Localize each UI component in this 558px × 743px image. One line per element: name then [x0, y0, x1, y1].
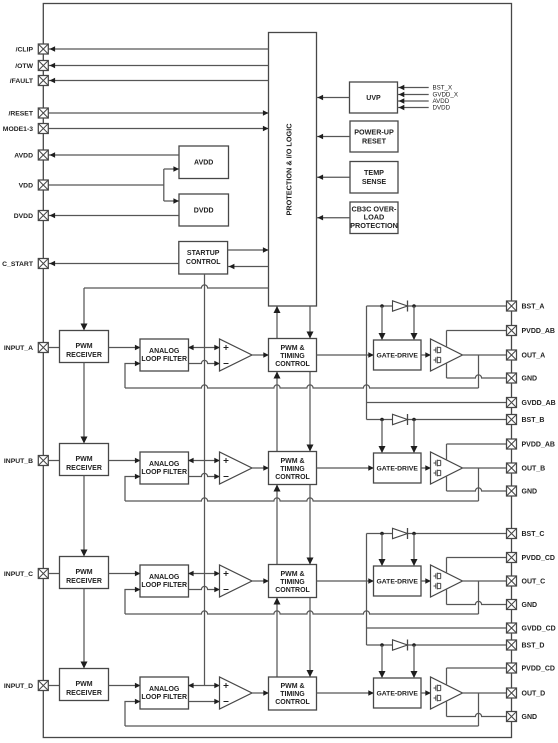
- terminal GND channel B: [507, 486, 517, 496]
- wire UVP input AVDD: [398, 100, 429, 102]
- wire PVDD_AB channel A: [447, 330, 507, 332]
- block GATE-DRIVE D: [374, 678, 422, 708]
- svg-text:AVDD: AVDD: [194, 160, 213, 167]
- wire gate drive D to output stage: [421, 692, 430, 694]
- block PWM RECEIVER C: [60, 557, 109, 589]
- svg-text:PWM: PWM: [75, 569, 92, 576]
- wire PWM timing control C to gate drive: [317, 580, 373, 582]
- wire PWM timing control D to gate drive: [317, 692, 373, 694]
- block UVP: [350, 82, 398, 113]
- svg-text:GATE-DRIVE: GATE-DRIVE: [376, 353, 418, 360]
- wire loop filter C to comparator minus: [189, 586, 219, 589]
- svg-text:STARTUP: STARTUP: [187, 250, 220, 257]
- svg-text:PWM &: PWM &: [280, 571, 304, 578]
- wire AVDD output: [48, 154, 179, 156]
- wire GVDD_CD: [367, 627, 507, 629]
- wire INPUT_A to PWM receiver: [48, 347, 59, 349]
- comparator C: [220, 565, 253, 597]
- svg-text:OUT_D: OUT_D: [522, 690, 546, 697]
- wire comparator B to PWM timing control: [252, 467, 268, 469]
- svg-text:LOOP FILTER: LOOP FILTER: [141, 469, 187, 476]
- svg-text:BST_X: BST_X: [433, 85, 453, 92]
- wire /CLIP: [48, 48, 268, 50]
- svg-text:CONTROL: CONTROL: [275, 474, 310, 481]
- wire diode cathode to gate drive C: [413, 534, 415, 566]
- terminal OUT_D: [507, 688, 517, 698]
- svg-text:PWM: PWM: [75, 343, 92, 350]
- junction dot B1: [380, 418, 384, 422]
- wire TEMP SENSE to protection: [317, 176, 351, 178]
- svg-text:ANALOG: ANALOG: [149, 574, 180, 581]
- terminal GND channel D: [507, 712, 517, 722]
- wire MODE1-3: [48, 128, 268, 130]
- terminal /RESET: [38, 108, 48, 118]
- svg-text:GVDD_AB: GVDD_AB: [522, 400, 556, 407]
- svg-text:GND: GND: [522, 714, 538, 721]
- terminal PVDD_AB channel A: [507, 326, 517, 336]
- output stage B: [431, 452, 463, 484]
- svg-text:INPUT_A: INPUT_A: [4, 345, 33, 352]
- svg-text:CONTROL: CONTROL: [186, 259, 221, 266]
- output stage A: [431, 339, 463, 371]
- wire PWM receiver A to analog loop filter: [109, 347, 140, 349]
- wire VDD input with branches to AVDD and DVDD: [48, 184, 164, 186]
- wire diode anode to gate drive C: [381, 534, 383, 566]
- wire POWER-UP RESET to protection: [317, 136, 351, 138]
- wire loop filter A to comparator minus: [189, 360, 219, 363]
- svg-text:SENSE: SENSE: [362, 177, 387, 186]
- svg-text:BST_D: BST_D: [522, 642, 545, 649]
- svg-text:CONTROL: CONTROL: [275, 361, 310, 368]
- wire INPUT_C to PWM receiver: [48, 573, 59, 575]
- svg-text:PVDD_CD: PVDD_CD: [522, 555, 555, 562]
- block PWM & TIMING CONTROL A: [269, 339, 317, 372]
- wire C_START: [48, 263, 179, 265]
- block PWM RECEIVER D: [60, 669, 109, 701]
- junction dot D2: [412, 643, 416, 647]
- wire loop filter C to comparator plus: [189, 573, 219, 575]
- bus wire down-arrows x=310: [309, 306, 311, 339]
- block GATE-DRIVE A: [374, 340, 422, 370]
- wire gate drive C to output stage: [421, 580, 430, 582]
- svg-text:/OTW: /OTW: [15, 63, 33, 70]
- wire INPUT_D to PWM receiver: [48, 685, 59, 687]
- block ANALOG LOOP FILTER C: [140, 565, 189, 597]
- wire diode anode to gate drive A: [381, 306, 383, 339]
- terminal AVDD: [38, 150, 48, 160]
- svg-text:BST_B: BST_B: [522, 417, 545, 424]
- wire GND channel B: [447, 488, 507, 491]
- terminal /FAULT: [38, 76, 48, 86]
- wire protection to PWM receiver A: [84, 285, 269, 288]
- wire GND channel A: [447, 375, 507, 378]
- wire bootstrap row B: [367, 419, 507, 421]
- svg-text:PVDD_AB: PVDD_AB: [522, 441, 555, 448]
- junction dot C2: [412, 532, 416, 536]
- wire PWM receiver B to analog loop filter: [109, 460, 140, 462]
- output stage D: [431, 677, 463, 709]
- block STARTUP CONTROL: [179, 242, 228, 275]
- svg-text:PWM: PWM: [75, 456, 92, 463]
- wire loop filter B to comparator minus: [189, 473, 219, 476]
- terminal INPUT_A: [38, 343, 48, 353]
- wire PWM receiver C to analog loop filter: [109, 573, 140, 575]
- wire GVDD_AB: [367, 402, 507, 404]
- svg-text:ANALOG: ANALOG: [149, 461, 180, 468]
- block GATE-DRIVE C: [374, 566, 422, 596]
- svg-text:TIMING: TIMING: [280, 466, 305, 473]
- wire /OTW: [48, 65, 268, 67]
- svg-text:PVDD_AB: PVDD_AB: [522, 328, 555, 335]
- svg-text:/CLIP: /CLIP: [16, 46, 34, 53]
- svg-text:INPUT_D: INPUT_D: [4, 683, 33, 690]
- svg-text:RECEIVER: RECEIVER: [66, 690, 102, 697]
- terminal BST_A: [507, 301, 517, 311]
- wire GND channel D: [447, 713, 507, 716]
- terminal GND channel A: [507, 373, 517, 383]
- block GATE-DRIVE B: [374, 453, 422, 483]
- wire OUT_D: [463, 692, 507, 694]
- terminal GVDD_AB: [507, 398, 517, 408]
- wire PWM receiver D to analog loop filter: [109, 685, 140, 687]
- wire STARTUP to protection: [228, 249, 269, 251]
- svg-text:MODE1-3: MODE1-3: [3, 126, 33, 133]
- output stage C: [431, 565, 463, 597]
- junction dot A2: [412, 304, 416, 308]
- terminal MODE1-3: [38, 124, 48, 134]
- svg-text:TIMING: TIMING: [280, 691, 305, 698]
- svg-text:TIMING: TIMING: [280, 353, 305, 360]
- wire diode cathode to gate drive B: [413, 420, 415, 453]
- wire PWM timing control A to gate drive: [317, 354, 373, 356]
- wire PWM receiver chain A to B: [83, 363, 85, 443]
- svg-text:UVP: UVP: [366, 95, 381, 102]
- svg-text:ANALOG: ANALOG: [149, 686, 180, 693]
- block PWM RECEIVER A: [60, 331, 109, 363]
- diode bootstrap D: [393, 640, 408, 651]
- block PWM & TIMING CONTROL B: [269, 452, 317, 485]
- terminal OUT_C: [507, 576, 517, 586]
- wire loop filter A to comparator plus: [189, 347, 219, 349]
- svg-text:GND: GND: [522, 375, 538, 382]
- svg-text:GATE-DRIVE: GATE-DRIVE: [376, 579, 418, 586]
- wire gate drive A to output stage: [421, 354, 430, 356]
- wire diode cathode to gate drive A: [413, 306, 415, 339]
- svg-text:/RESET: /RESET: [8, 110, 33, 117]
- wire diode anode to gate drive D: [381, 645, 383, 677]
- wire gate drive B to output stage: [421, 467, 430, 469]
- wire /FAULT: [48, 80, 268, 82]
- svg-text:ANALOG: ANALOG: [149, 348, 180, 355]
- wire OUT_B: [463, 467, 507, 469]
- svg-text:GVDD_CD: GVDD_CD: [522, 625, 556, 632]
- terminal GND channel C: [507, 600, 517, 610]
- wire OUT_C: [463, 580, 507, 582]
- svg-text:AVDD: AVDD: [14, 152, 33, 159]
- block CB3C OVER-LOAD PROTECTION: [350, 202, 398, 234]
- svg-text:PROTECTION & I/O LOGIC: PROTECTION & I/O LOGIC: [285, 123, 294, 216]
- block TEMP SENSE: [350, 162, 398, 194]
- junction dot C1: [380, 532, 384, 536]
- svg-text:GND: GND: [522, 602, 538, 609]
- wire UVP input DVDD: [398, 107, 429, 109]
- svg-text:BST_C: BST_C: [522, 531, 545, 538]
- terminal GVDD_CD: [507, 623, 517, 633]
- diode bootstrap B: [393, 414, 408, 425]
- wire protection to STARTUP: [228, 266, 269, 268]
- block PROTECTION & I/O LOGIC: [269, 33, 317, 307]
- block PWM RECEIVER B: [60, 444, 109, 476]
- svg-text:PROTECTION: PROTECTION: [350, 221, 398, 230]
- wire /RESET: [48, 112, 268, 114]
- svg-text:LOOP FILTER: LOOP FILTER: [141, 582, 187, 589]
- terminal PVDD_AB channel B: [507, 439, 517, 449]
- terminal /OTW: [38, 61, 48, 71]
- junction dot B2: [412, 418, 416, 422]
- terminal BST_D: [507, 640, 517, 650]
- comparator B: [220, 452, 253, 484]
- wire OUT_A: [463, 354, 507, 356]
- svg-text:RECEIVER: RECEIVER: [66, 352, 102, 359]
- wire CB3C to protection: [317, 217, 351, 219]
- svg-text:PVDD_CD: PVDD_CD: [522, 665, 555, 672]
- block DVDD regulator: [179, 194, 229, 226]
- terminal DVDD: [38, 211, 48, 221]
- svg-text:OUT_C: OUT_C: [522, 578, 546, 585]
- terminal OUT_A: [507, 350, 517, 360]
- comparator A: [220, 339, 253, 371]
- block PWM & TIMING CONTROL C: [269, 565, 317, 598]
- wire PVDD_AB channel B: [447, 443, 507, 445]
- block AVDD regulator: [179, 146, 229, 179]
- terminal INPUT_C: [38, 569, 48, 579]
- block PWM & TIMING CONTROL D: [269, 677, 317, 710]
- terminal C_START: [38, 259, 48, 269]
- svg-text:/FAULT: /FAULT: [10, 78, 34, 85]
- wire bootstrap row C: [367, 533, 507, 535]
- svg-text:PWM &: PWM &: [280, 345, 304, 352]
- wire UVP to protection: [317, 97, 350, 99]
- svg-text:LOOP FILTER: LOOP FILTER: [141, 356, 187, 363]
- wire loop filter B to comparator plus: [189, 460, 219, 462]
- terminal /CLIP: [38, 44, 48, 54]
- diode bootstrap A: [393, 301, 408, 312]
- wire PWM receiver chain B to C: [83, 476, 85, 556]
- block POWER-UP RESET: [350, 121, 398, 152]
- wire feedback rail B into loop filter: [125, 477, 140, 502]
- wire comparator A to PWM timing control: [252, 354, 268, 356]
- block ANALOG LOOP FILTER B: [140, 452, 189, 484]
- terminal PVDD_CD channel C: [507, 553, 517, 563]
- wire comparator C to PWM timing control: [252, 580, 268, 582]
- terminal PVDD_CD channel D: [507, 663, 517, 673]
- svg-text:RECEIVER: RECEIVER: [66, 578, 102, 585]
- wire feedback rail D into loop filter: [125, 702, 140, 727]
- svg-text:TIMING: TIMING: [280, 579, 305, 586]
- terminal VDD: [38, 180, 48, 190]
- junction dot A1: [380, 304, 384, 308]
- bus wire up-arrows x=277: [276, 306, 278, 339]
- svg-text:PWM &: PWM &: [280, 683, 304, 690]
- terminal BST_C: [507, 529, 517, 539]
- svg-text:LOOP FILTER: LOOP FILTER: [141, 694, 187, 701]
- diode bootstrap C: [393, 528, 408, 539]
- wire comparator D to PWM timing control: [252, 692, 268, 694]
- terminal INPUT_B: [38, 456, 48, 466]
- svg-text:CONTROL: CONTROL: [275, 587, 310, 594]
- block ANALOG LOOP FILTER A: [140, 339, 189, 371]
- svg-text:INPUT_B: INPUT_B: [4, 458, 33, 465]
- wire loop filter D to comparator plus: [189, 685, 219, 687]
- wire PWM receiver chain C to D: [83, 589, 85, 668]
- wire PWM timing control B to gate drive: [317, 467, 373, 469]
- terminal OUT_B: [507, 463, 517, 473]
- svg-text:RECEIVER: RECEIVER: [66, 465, 102, 472]
- wire UVP input GVDD_X: [398, 94, 429, 96]
- svg-text:DVDD: DVDD: [14, 213, 33, 220]
- wire diode cathode to gate drive D: [413, 645, 415, 677]
- wire INPUT_B to PWM receiver: [48, 460, 59, 462]
- wire PVDD_CD channel D: [447, 667, 507, 669]
- wire bootstrap row D: [367, 644, 507, 646]
- wire GND channel C: [447, 601, 507, 604]
- terminal INPUT_D: [38, 681, 48, 691]
- comparator D: [220, 677, 253, 709]
- wire UVP input BST_X: [398, 87, 429, 89]
- svg-text:C_START: C_START: [2, 261, 34, 268]
- svg-text:INPUT_C: INPUT_C: [4, 571, 33, 578]
- wire PVDD_CD channel C: [447, 557, 507, 559]
- wire feedback rail C into loop filter: [125, 590, 140, 615]
- svg-text:BST_A: BST_A: [522, 303, 545, 310]
- svg-text:OUT_A: OUT_A: [522, 352, 546, 359]
- wire startup ramp vertical: [204, 274, 206, 686]
- svg-text:DVDD: DVDD: [433, 105, 451, 112]
- svg-text:POWER-UP: POWER-UP: [354, 128, 394, 137]
- svg-text:GATE-DRIVE: GATE-DRIVE: [376, 691, 418, 698]
- wire loop filter D to comparator minus: [189, 701, 219, 703]
- svg-text:RESET: RESET: [362, 137, 387, 146]
- wire diode anode to gate drive B: [381, 420, 383, 453]
- svg-text:CONTROL: CONTROL: [275, 699, 310, 706]
- junction dot D1: [380, 643, 384, 647]
- svg-text:PWM: PWM: [75, 681, 92, 688]
- wire feedback rail A into loop filter: [125, 364, 140, 389]
- wire DVDD output: [48, 215, 179, 217]
- block ANALOG LOOP FILTER D: [140, 677, 189, 709]
- wire bootstrap row A: [367, 305, 507, 307]
- svg-text:DVDD: DVDD: [194, 208, 214, 215]
- svg-text:VDD: VDD: [19, 182, 33, 189]
- terminal BST_B: [507, 415, 517, 425]
- svg-text:GND: GND: [522, 488, 538, 495]
- svg-text:OUT_B: OUT_B: [522, 465, 546, 472]
- svg-text:GATE-DRIVE: GATE-DRIVE: [376, 466, 418, 473]
- svg-text:TEMP: TEMP: [364, 168, 384, 177]
- svg-text:PWM &: PWM &: [280, 458, 304, 465]
